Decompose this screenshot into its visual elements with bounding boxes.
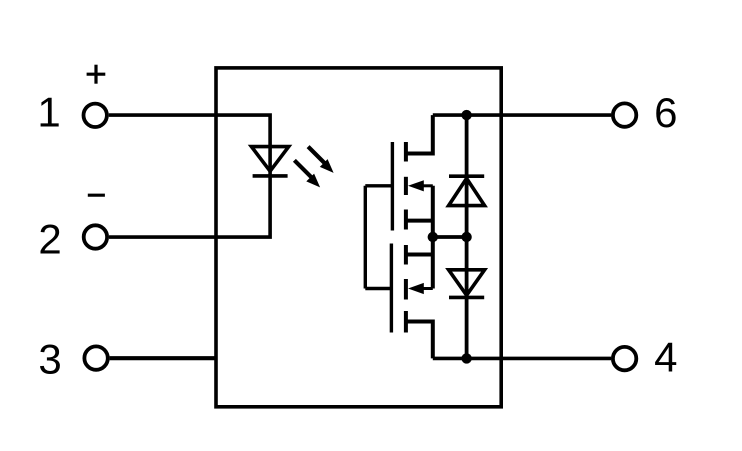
svg-text:2: 2 [38, 215, 61, 262]
svg-text:1: 1 [37, 88, 60, 135]
svg-text:3: 3 [38, 335, 61, 382]
svg-text:4: 4 [654, 334, 677, 381]
svg-text:6: 6 [654, 89, 677, 136]
